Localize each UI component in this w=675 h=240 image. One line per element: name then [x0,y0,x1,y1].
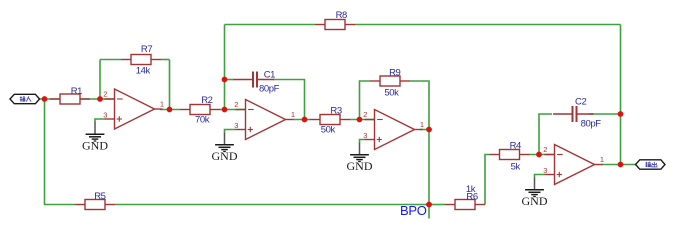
wire R6 up to R4 [485,155,490,205]
svg-text:GND: GND [82,139,108,153]
resistor R5 [75,191,115,209]
ground GND3 [347,140,373,174]
svg-text:2: 2 [363,110,367,119]
wire right rail vertical [620,25,622,165]
junction node C2 tap node [618,111,624,117]
svg-text:R4: R4 [510,141,521,152]
junction node U3 pin2 node [357,117,363,123]
svg-text:R2: R2 [201,95,212,106]
svg-text:1: 1 [160,100,164,109]
wire input to R1 [40,98,61,100]
junction node BPO node [426,202,432,208]
resistor R8 [315,10,355,29]
junction node C1 tap node [222,77,228,83]
wire R1 to op-amp U1 pin 2 [80,98,115,100]
resistor R2 [180,95,220,126]
svg-text:2: 2 [543,145,547,154]
svg-text:50k: 50k [321,125,336,136]
wire feedback left vertical node pin2-U1 [99,60,101,100]
op-amp U4 [543,145,604,185]
net flag input 输入 [10,94,40,103]
svg-text:R9: R9 [389,67,400,78]
ground GND4 [522,175,548,209]
svg-text:C1: C1 [264,69,275,80]
wire feedback top to R7 [100,59,121,61]
wire R9 to right vertical down to U3 output [410,81,429,130]
resistor R4 [490,141,530,173]
wire R5 to BPO node [115,204,429,206]
ground GND1 [82,119,108,153]
svg-text:14k: 14k [136,65,151,76]
svg-text:5k: 5k [511,162,521,173]
wire U3 output stub to vertical [420,129,429,131]
svg-text:1k: 1k [466,184,476,195]
resistor R6 [445,184,485,210]
svg-text:2: 2 [234,100,238,109]
svg-text:1: 1 [600,155,604,164]
wire C1 tap node to C1 [225,79,235,81]
svg-text:50k: 50k [384,88,399,99]
junction node U1 output node [167,107,173,113]
svg-text:R7: R7 [141,44,152,55]
resistor R1 [50,86,90,104]
svg-text:R1: R1 [71,86,82,97]
op-amp U2 [234,100,295,140]
svg-text:2: 2 [103,89,107,98]
junction node U4 output node [618,162,624,168]
wire R4 to U4 pin 2 [530,154,555,156]
wire pin2-U4 up to C2 [539,114,552,155]
junction node U4 pin2 node [536,152,542,158]
wire C1 right to U2 output [273,80,305,120]
wire U4 output to output flag [601,164,636,166]
svg-text:R3: R3 [330,106,341,117]
net flag output 输出 [636,160,666,169]
wire U1 output to R2 [160,109,180,111]
svg-text:C2: C2 [575,97,586,108]
junction node U1 pin2 / R7 tap [97,96,103,102]
wire top rail R8 to right corner [355,24,621,26]
wire input node down to bottom rail [45,99,76,205]
wire pin2-U3 up to R9 loop [360,81,371,120]
wire R3 to U3 pin 2 [350,119,375,121]
resistor R9 [370,67,410,98]
net label BPO [400,203,427,218]
svg-text:GND: GND [522,194,548,208]
svg-text:1: 1 [291,110,295,119]
resistor R3 [310,106,350,136]
svg-text:R5: R5 [94,191,105,202]
wire U2 output to R3 [293,119,310,121]
wire R7 right vertical to U1 output [169,60,171,110]
svg-text:BPO: BPO [400,203,427,218]
wire top rail left segment to R8 [225,24,316,26]
op-amp U1 [103,89,164,129]
svg-text:70k: 70k [195,115,210,126]
wire R2 to U2 pin 2 [220,109,246,111]
svg-text:GND: GND [347,159,373,173]
junction node U2 pin2 node [222,107,228,113]
wire R7 to right vertical [161,59,170,61]
svg-text:GND: GND [212,149,238,163]
junction node input node [42,96,48,102]
ground GND2 [212,130,238,164]
op-amp U3 [363,110,424,150]
junction node U3 output node [426,127,432,133]
wire BPO node to R6 [429,204,445,206]
capacitor C2 [553,97,601,130]
wire node B vertical (pin2-U2 up to top rail) [224,25,226,110]
wire C2 right to right rail [589,113,621,115]
svg-text:1: 1 [420,120,424,129]
capacitor C1 [234,69,280,94]
resistor R7 [121,44,161,77]
wire U3 output down to BPO node [428,130,430,219]
junction node U2 output node [302,117,308,123]
svg-text:R8: R8 [336,10,347,21]
svg-text:80pF: 80pF [581,119,602,130]
svg-text:80pF: 80pF [259,84,280,95]
